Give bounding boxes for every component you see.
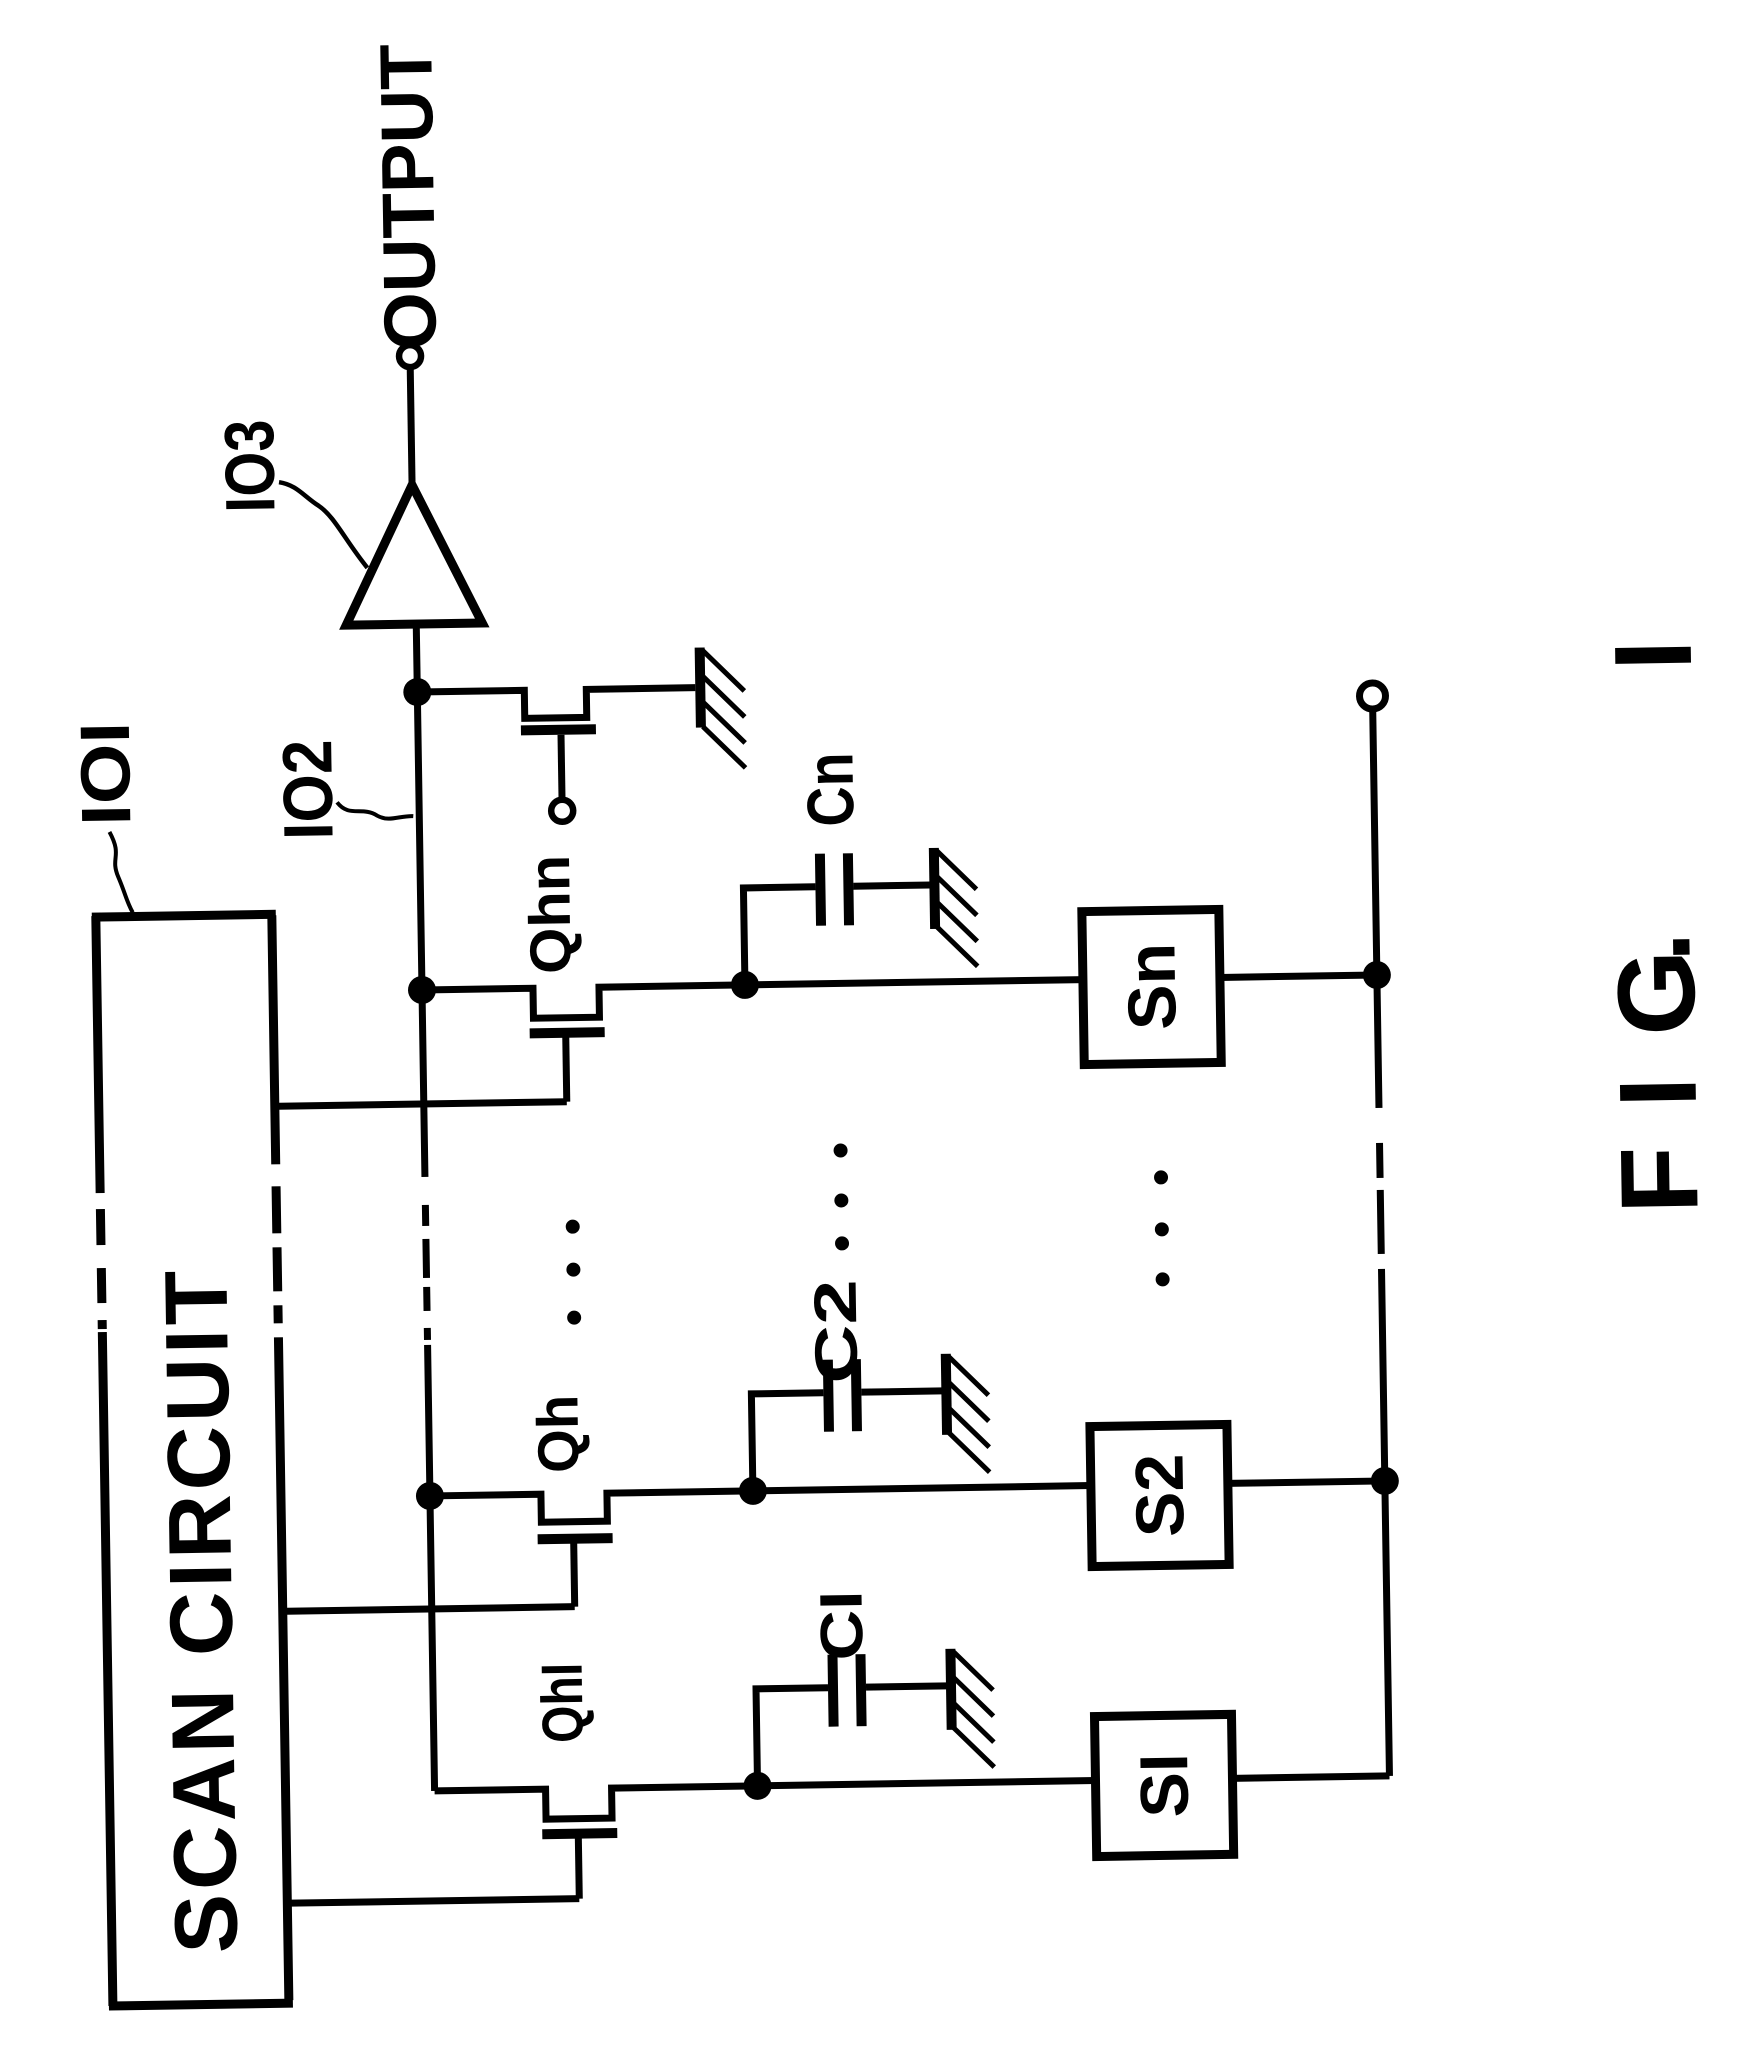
leader 102: [337, 801, 413, 819]
svg-text:IOI: IOI: [66, 721, 146, 826]
ellipsis dots between capacitors: [833, 1143, 849, 1250]
common bus terminal circle: [1359, 683, 1385, 709]
svg-text:C2: C2: [802, 1279, 871, 1384]
gate lead Qhn: [566, 1033, 567, 1102]
svg-text:Sn: Sn: [1113, 942, 1190, 1030]
node Sn/common bus: [1363, 961, 1391, 989]
node cap C1 junction: [743, 1772, 771, 1800]
leader 101: [109, 832, 132, 913]
wire S2 to common bus: [1228, 1481, 1385, 1483]
capacitor Cn branch lead: [743, 887, 817, 985]
scan circuit box 101 (dashed continuation in middle of top/bottom edges): [92, 913, 293, 2006]
svg-text:IO2: IO2: [268, 739, 348, 840]
svg-text:I: I: [1597, 1076, 1720, 1108]
common output bus (dashed middle): [1373, 711, 1390, 1776]
leader 103: [279, 481, 367, 569]
wire S1 to common bus: [1232, 1776, 1389, 1778]
node cap C2 junction: [739, 1477, 767, 1505]
wire Qh1 node to sensor S1: [758, 1781, 1096, 1786]
gate bar Qh1: [542, 1833, 617, 1834]
svg-text:IO3: IO3: [210, 419, 289, 513]
gate lead Qh1: [578, 1834, 579, 1899]
capacitor C2 plates: [828, 1359, 857, 1431]
svg-text:Cn: Cn: [792, 752, 867, 827]
gate lead Qh: [574, 1539, 575, 1607]
gate line Qhn to scan circuit: [279, 1102, 567, 1107]
gate bar of reset transistor: [521, 729, 596, 730]
capacitor C1 branch lead: [756, 1688, 830, 1786]
gate line Qh1 to scan circuit: [291, 1899, 579, 1904]
gate line Qh to scan circuit: [287, 1607, 575, 1612]
svg-text:CI: CI: [807, 1590, 875, 1661]
node cap Cn junction: [731, 971, 759, 999]
svg-text:I: I: [1592, 639, 1715, 671]
node S2/common bus: [1371, 1467, 1399, 1495]
node bus/cell-n: [408, 976, 436, 1004]
OUTPUT terminal circle: [399, 345, 421, 367]
wire Sn to common bus: [1220, 975, 1377, 977]
gate bar Qhn: [530, 1032, 605, 1033]
svg-text:Qhn: Qhn: [517, 854, 584, 974]
wire video line elbow into cell 1 / transistor Qh1: [435, 1786, 758, 1821]
transistor reset (drain-source path with channel jog): [417, 688, 695, 720]
svg-text:QhI: QhI: [530, 1662, 596, 1743]
ground (reset drain): [700, 647, 746, 769]
gate lead of reset transistor: [561, 735, 562, 799]
node A (amp input / reset junction): [403, 678, 431, 706]
ellipsis dots between gate lines: [566, 1220, 582, 1325]
svg-text:SI: SI: [1126, 1753, 1203, 1818]
sensor box S1: [1094, 1714, 1233, 1856]
wire Qh node to sensor S2: [753, 1486, 1091, 1491]
op-amp 103 (output buffer triangle): [344, 484, 482, 625]
svg-text:SCAN CIRCUIT: SCAN CIRCUIT: [145, 1270, 256, 1954]
capacitor C1 plates: [832, 1654, 861, 1726]
sensor box S2: [1090, 1424, 1229, 1566]
video line 102 (horizontal bus, dashed middle): [416, 624, 434, 1791]
ground (Cn): [934, 847, 978, 967]
transistor Qh (column with channel jog): [430, 1491, 753, 1524]
wire amp to output terminal: [410, 367, 412, 485]
node bus/cell-2: [416, 1482, 444, 1510]
wire Qhn node to sensor Sn: [745, 980, 1083, 985]
svg-text:S2: S2: [1121, 1453, 1198, 1537]
capacitor C2 branch lead: [751, 1393, 825, 1491]
gate bar Qh: [538, 1538, 613, 1539]
ground (C2): [946, 1353, 990, 1473]
capacitor C1 lower lead: [866, 1686, 947, 1687]
capacitor Cn plates: [820, 853, 849, 925]
gate terminal circle of reset transistor: [551, 800, 573, 822]
ground (C1): [950, 1648, 994, 1768]
capacitor Cn lower lead: [853, 885, 930, 886]
svg-text:OUTPUT: OUTPUT: [364, 43, 452, 350]
svg-text:F: F: [1598, 1145, 1722, 1214]
ellipsis dots between sensors: [1154, 1170, 1170, 1286]
svg-text:Qh: Qh: [525, 1394, 591, 1473]
capacitor C2 lower lead: [861, 1391, 942, 1392]
svg-text:.: .: [1590, 931, 1713, 963]
transistor Qhn (column with channel jog): [422, 985, 745, 1020]
sensor box Sn: [1082, 909, 1221, 1064]
